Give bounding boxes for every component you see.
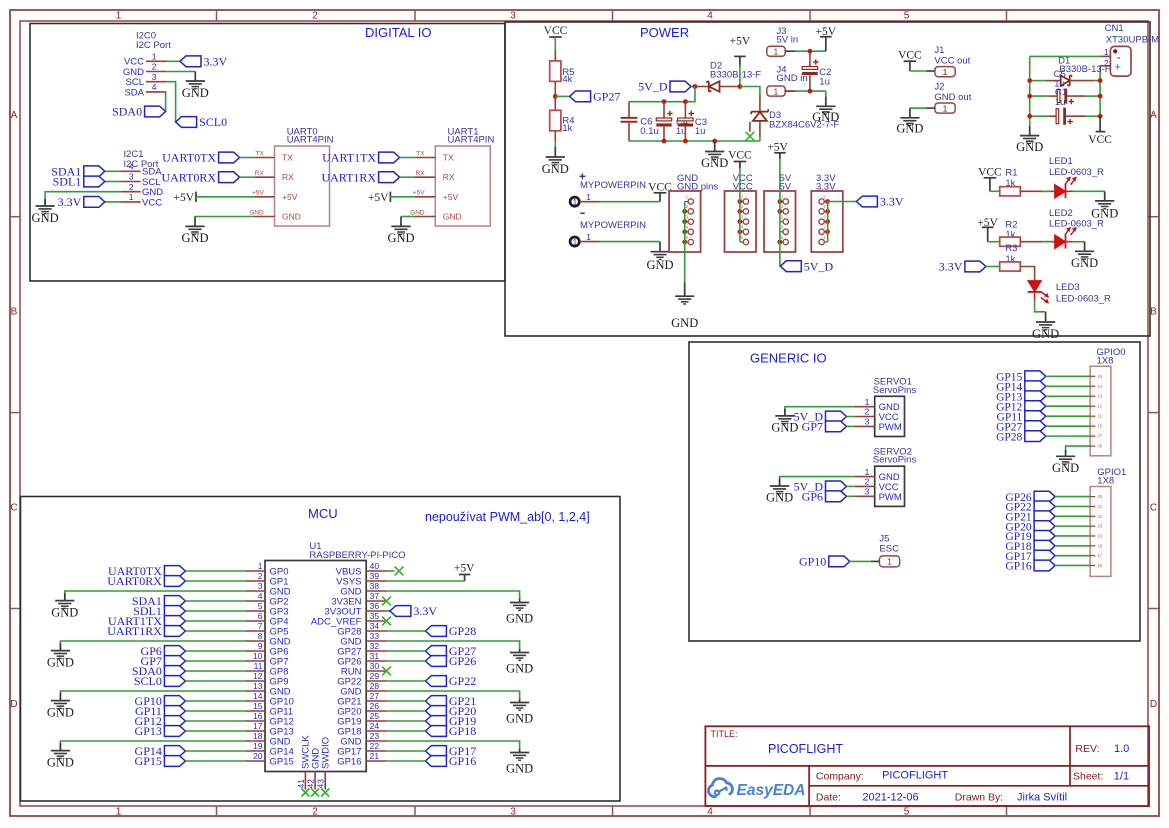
svg-text:1X8: 1X8 bbox=[1097, 476, 1114, 487]
SERVO1 pin 1 GND bbox=[854, 406, 874, 408]
net flag SCL0 bbox=[176, 117, 197, 128]
svg-text:VCC: VCC bbox=[728, 150, 752, 162]
GPIO0 pin 13 bbox=[1090, 395, 1095, 397]
no-connect X (RUN) bbox=[382, 667, 391, 676]
svg-text:22: 22 bbox=[1097, 504, 1102, 509]
svg-text:5: 5 bbox=[258, 601, 263, 611]
GPIO1 pin 17 bbox=[1090, 555, 1095, 557]
svg-text:GND in: GND in bbox=[777, 73, 808, 84]
EasyEDA logo bbox=[709, 779, 733, 797]
svg-text:ServoPins: ServoPins bbox=[873, 455, 917, 466]
svg-text:1: 1 bbox=[129, 192, 134, 202]
svg-text:ServoPins: ServoPins bbox=[873, 385, 917, 396]
wire U1 pin 8 GND bbox=[60, 641, 244, 650]
svg-text:42: 42 bbox=[306, 779, 316, 789]
U1 pin 31 GP26 bbox=[366, 660, 386, 662]
svg-text:GND: GND bbox=[410, 209, 425, 216]
wire CN1 left vertical bbox=[1029, 56, 1031, 126]
svg-text:1: 1 bbox=[943, 67, 948, 77]
svg-text:15: 15 bbox=[253, 701, 263, 711]
no-connect X (pin 43) bbox=[321, 789, 329, 797]
no-connect X (pin 42) bbox=[311, 789, 319, 797]
wire SERVO2 GND bbox=[780, 477, 855, 486]
junction CN1 rung3 right bbox=[1098, 114, 1103, 119]
wire GP22 to GPIO1 bbox=[1055, 505, 1090, 507]
svg-text:GP10: GP10 bbox=[799, 555, 826, 569]
svg-text:GND: GND bbox=[47, 656, 74, 670]
wire junction to GP27 bbox=[555, 95, 569, 97]
wire U1 pin 3 GND bbox=[65, 591, 245, 600]
svg-text:A: A bbox=[1150, 110, 1157, 121]
wire +5V stub to node bbox=[739, 56, 741, 66]
D3 NC pin bbox=[749, 122, 751, 132]
svg-text:GP15: GP15 bbox=[135, 754, 162, 768]
svg-text:RX: RX bbox=[416, 170, 426, 177]
svg-text:2: 2 bbox=[258, 571, 263, 581]
svg-text:LED2: LED2 bbox=[1049, 208, 1073, 219]
svg-text:31: 31 bbox=[370, 651, 380, 661]
net flag UART0RX (U1 left) bbox=[164, 576, 185, 587]
svg-text:SCL0: SCL0 bbox=[199, 115, 227, 129]
UART1 pin TX bbox=[415, 157, 435, 159]
net flag GP16 (U1 right) bbox=[425, 756, 446, 767]
net flag GP17 (GPIO1) bbox=[1034, 550, 1055, 561]
wire GP21 to U1 bbox=[387, 700, 426, 702]
svg-text:26: 26 bbox=[370, 701, 380, 711]
wire GP15 to GPIO0 bbox=[1046, 375, 1090, 377]
wire UART1 TX bbox=[400, 157, 415, 159]
svg-text:43: 43 bbox=[316, 779, 326, 789]
net flag GP27 (U1 right) bbox=[425, 646, 446, 657]
svg-text:4: 4 bbox=[707, 807, 713, 818]
svg-text:1: 1 bbox=[116, 11, 122, 22]
wire I2C1 GND bbox=[45, 192, 120, 206]
junction CN1 rung2 left bbox=[1027, 94, 1032, 99]
no-connect X (D3 NC) bbox=[746, 132, 755, 141]
svg-text:1.0: 1.0 bbox=[1114, 743, 1129, 755]
svg-text:1: 1 bbox=[943, 103, 948, 113]
svg-text:GP6: GP6 bbox=[802, 490, 823, 504]
svg-text:MYPOWERPIN: MYPOWERPIN bbox=[580, 220, 646, 231]
junction 5V_D/D2/top-rail bbox=[693, 84, 698, 89]
net flag GP21 (U1 right) bbox=[425, 696, 446, 707]
wire UART0TX to U1 bbox=[185, 570, 244, 572]
svg-text:SDA: SDA bbox=[124, 87, 144, 98]
wire R3 to LED3 bbox=[1020, 267, 1034, 281]
U1 pin 21 GP16 bbox=[366, 760, 386, 762]
wire GP6 to U1 bbox=[185, 650, 244, 652]
wire 3.3V header vertical bbox=[827, 202, 829, 243]
svg-text:11: 11 bbox=[1097, 414, 1102, 419]
ground (LED1) bbox=[1104, 191, 1106, 201]
junction GND rail bbox=[712, 139, 717, 144]
wire GP28 to U1 bbox=[387, 630, 426, 632]
ground (CN1 net) bbox=[1029, 126, 1031, 136]
net flag 3.3V (I2C0) bbox=[180, 56, 201, 67]
U1 pin 13 GND bbox=[245, 690, 265, 692]
svg-text:UART0RX: UART0RX bbox=[161, 170, 216, 184]
wire SCL0 to U1 bbox=[185, 680, 244, 682]
svg-text:POWER: POWER bbox=[640, 25, 689, 40]
U1 pin 17 GP13 bbox=[245, 730, 265, 732]
svg-text:GND: GND bbox=[47, 706, 74, 720]
svg-text:4k: 4k bbox=[562, 74, 572, 85]
U1 pin 41 SWCLK bbox=[304, 772, 306, 790]
svg-text:RX: RX bbox=[443, 172, 455, 182]
svg-text:GND: GND bbox=[812, 110, 839, 124]
U1 pin 40 VBUS bbox=[366, 570, 386, 572]
wire U1 pin 18 GND bbox=[60, 741, 244, 750]
svg-text:+5V: +5V bbox=[368, 192, 389, 204]
net flag GP6 (SERVO2) bbox=[826, 491, 847, 502]
svg-text:PWM: PWM bbox=[879, 492, 902, 503]
net flag SDA1 (U1 left) bbox=[164, 596, 185, 607]
svg-text:GND: GND bbox=[506, 612, 533, 626]
svg-text:GND: GND bbox=[1016, 140, 1043, 154]
svg-text:1X8: 1X8 bbox=[1097, 356, 1114, 367]
svg-text:14: 14 bbox=[1097, 384, 1102, 389]
U1 pin 19 GP14 bbox=[245, 750, 265, 752]
svg-text:2: 2 bbox=[312, 11, 318, 22]
SERVO2 pin 3 PWM bbox=[854, 495, 874, 497]
svg-text:2: 2 bbox=[865, 477, 870, 487]
wire UART1TX to U1 bbox=[185, 620, 244, 622]
svg-text:EasyEDA: EasyEDA bbox=[737, 782, 806, 799]
svg-text:1: 1 bbox=[258, 561, 263, 571]
ground (LED2) bbox=[1084, 242, 1086, 252]
svg-text:5V_D: 5V_D bbox=[638, 80, 668, 94]
svg-text:PICOFLIGHT: PICOFLIGHT bbox=[882, 770, 948, 782]
GPIO0 pin 06 bbox=[1090, 445, 1095, 447]
svg-text:SDA0: SDA0 bbox=[112, 105, 142, 119]
SERVO1 pin 2 VCC bbox=[854, 416, 874, 418]
svg-text:GND: GND bbox=[896, 122, 923, 136]
svg-text:36: 36 bbox=[370, 601, 380, 611]
junction D2/D3/+5V bbox=[738, 84, 743, 89]
wire GP13 to GPIO0 bbox=[1046, 395, 1090, 397]
connector MYPOWERPIN - bbox=[580, 212, 584, 214]
GPIO0 pin 14 bbox=[1090, 385, 1095, 387]
svg-text:24: 24 bbox=[370, 721, 380, 731]
GPIO0 pin 07 bbox=[1090, 435, 1095, 437]
wire R5 to R4 bbox=[554, 81, 556, 110]
ground (GND pins header) bbox=[684, 282, 686, 296]
svg-text:J1: J1 bbox=[934, 45, 944, 56]
svg-text:16: 16 bbox=[253, 711, 263, 721]
svg-text:12: 12 bbox=[1097, 404, 1102, 409]
net flag GP12 (GPIO0) bbox=[1025, 401, 1046, 412]
wire R2 to LED2 bbox=[1020, 241, 1054, 243]
net flag UART1RX bbox=[379, 172, 400, 183]
SERVO2 pin 1 GND bbox=[854, 476, 874, 478]
wire GP7 to U1 bbox=[185, 660, 244, 662]
wire LED3 to GND bbox=[1034, 293, 1036, 300]
net flag UART0TX bbox=[219, 152, 240, 163]
wire SDA1 to U1 bbox=[185, 600, 244, 602]
UART1 pin +5V bbox=[415, 196, 435, 198]
svg-text:B330B-13-F: B330B-13-F bbox=[710, 69, 761, 80]
svg-text:SDL1: SDL1 bbox=[53, 175, 82, 189]
wire J2 bbox=[926, 107, 935, 109]
U1 pin 23 GND bbox=[366, 740, 386, 742]
wire I2C0 VCC to 3.3V bbox=[166, 60, 180, 62]
svg-text:22: 22 bbox=[370, 741, 380, 751]
svg-text:1u: 1u bbox=[695, 126, 706, 137]
svg-text:8: 8 bbox=[258, 631, 263, 641]
GPIO0 pin 12 bbox=[1090, 405, 1095, 407]
svg-text:TX: TX bbox=[416, 150, 425, 157]
U1 pin 29 GP22 bbox=[366, 680, 386, 682]
CN1 pin 2 bbox=[1100, 65, 1110, 67]
net flag GP16 (GPIO1) bbox=[1034, 560, 1055, 571]
wire GP21 to GPIO1 bbox=[1055, 515, 1090, 517]
U1 pin 18 GND bbox=[245, 740, 265, 742]
svg-text:2: 2 bbox=[312, 807, 318, 818]
svg-text:GND: GND bbox=[1032, 327, 1059, 341]
svg-text:UART4PIN: UART4PIN bbox=[448, 135, 495, 146]
wire GP16 to GPIO1 bbox=[1055, 564, 1090, 566]
net flag GP19 (GPIO1) bbox=[1034, 531, 1055, 542]
U1 pin 43 SWDIO bbox=[324, 772, 326, 790]
svg-text:32: 32 bbox=[370, 641, 380, 651]
ground (MYPOWERPIN) bbox=[659, 242, 661, 252]
svg-text:nepoužívat PWM_ab[0, 1,2,4]: nepoužívat PWM_ab[0, 1,2,4] bbox=[425, 510, 590, 524]
wire U1 pin 23 GND bbox=[387, 741, 520, 749]
svg-text:Company:: Company: bbox=[816, 771, 864, 783]
wire UART1 RX bbox=[400, 176, 415, 178]
svg-text:1k: 1k bbox=[562, 123, 572, 134]
svg-text:A: A bbox=[11, 110, 18, 121]
wire GP11 to GPIO0 bbox=[1046, 415, 1090, 417]
wire I2C1 SCL to SDL1 bbox=[105, 181, 121, 183]
net flag GP27 bbox=[570, 91, 591, 102]
svg-text:GND: GND bbox=[506, 662, 533, 676]
svg-text:1: 1 bbox=[774, 86, 779, 96]
U1 pin 10 GP7 bbox=[245, 660, 265, 662]
svg-text:1: 1 bbox=[865, 467, 870, 477]
U1 pin 12 GP9 bbox=[245, 680, 265, 682]
svg-text:25: 25 bbox=[370, 711, 380, 721]
svg-text:5: 5 bbox=[904, 11, 910, 22]
svg-text:1: 1 bbox=[152, 52, 157, 62]
svg-text:TX: TX bbox=[282, 153, 293, 163]
U1 pin 30 RUN bbox=[366, 670, 386, 672]
net flag GP10 (U1 left) bbox=[164, 696, 185, 707]
svg-text:Date:: Date: bbox=[816, 792, 841, 804]
wire GP27 to U1 bbox=[387, 650, 426, 652]
wire VCC header bbox=[739, 162, 741, 169]
wire CN1 top rail bbox=[1030, 55, 1100, 57]
svg-text:UART1RX: UART1RX bbox=[321, 170, 376, 184]
svg-text:GND: GND bbox=[1071, 256, 1098, 270]
svg-text:3: 3 bbox=[152, 72, 157, 82]
wire UART1RX to U1 bbox=[185, 630, 244, 632]
svg-text:33: 33 bbox=[370, 631, 380, 641]
svg-text:38: 38 bbox=[370, 581, 380, 591]
net flag GP10 bbox=[829, 556, 850, 567]
wire GP19 to GPIO1 bbox=[1055, 535, 1090, 537]
svg-text:GP26: GP26 bbox=[449, 654, 476, 668]
svg-text:3.3V: 3.3V bbox=[58, 195, 82, 209]
U1 pin 11 GP8 bbox=[245, 670, 265, 672]
svg-text:VCC: VCC bbox=[142, 197, 162, 208]
svg-text:13: 13 bbox=[1097, 394, 1102, 399]
GPIO1 pin 21 bbox=[1090, 515, 1095, 517]
no-connect X (3V3EN) bbox=[382, 597, 391, 606]
net flag 3.3V (R3) bbox=[965, 261, 986, 272]
svg-text:LED1: LED1 bbox=[1049, 156, 1073, 167]
svg-text:1: 1 bbox=[774, 47, 779, 57]
svg-text:5V in: 5V in bbox=[777, 34, 799, 45]
svg-text:17: 17 bbox=[253, 721, 263, 731]
svg-text:20: 20 bbox=[253, 751, 263, 761]
GPIO1 pin 20 bbox=[1090, 525, 1095, 527]
CN1 pin 1 bbox=[1100, 55, 1110, 57]
junction J4/C2 bbox=[808, 89, 813, 94]
ground (UART0) bbox=[194, 217, 196, 227]
wire MYPOWERPIN+ to VCC bbox=[600, 201, 660, 203]
ground (GPIO0) bbox=[1065, 450, 1067, 456]
wire R4 to GND bbox=[554, 131, 556, 141]
svg-text:11: 11 bbox=[254, 661, 263, 671]
svg-text:+5V: +5V bbox=[173, 192, 194, 204]
resistor R4 1k bbox=[550, 110, 561, 131]
svg-text:GND: GND bbox=[506, 762, 533, 776]
svg-text:18: 18 bbox=[1097, 543, 1102, 548]
svg-text:4: 4 bbox=[152, 82, 157, 92]
svg-text:30: 30 bbox=[370, 661, 380, 671]
net flag SDA0 bbox=[145, 106, 166, 117]
section box POWER bbox=[505, 22, 1150, 336]
svg-text:GP28: GP28 bbox=[996, 431, 1022, 443]
U1 pin 28 GND bbox=[366, 690, 386, 692]
wire UART0 +5V bbox=[196, 196, 254, 198]
net flag GP26 (GPIO1) bbox=[1034, 491, 1055, 502]
svg-text:4: 4 bbox=[707, 11, 713, 22]
svg-text:GND: GND bbox=[51, 606, 78, 620]
svg-text:1u: 1u bbox=[819, 77, 830, 88]
svg-text:I2C Port: I2C Port bbox=[136, 40, 171, 51]
junction CN1 rung1 right bbox=[1098, 78, 1103, 83]
net flag GP6 (U1 left) bbox=[164, 646, 185, 657]
wire GP20 to U1 bbox=[387, 710, 426, 712]
net flag SCL0 (U1 left) bbox=[164, 676, 185, 687]
U1 pin 4 GP2 bbox=[245, 600, 265, 602]
net flag 3.3V (I2C1) bbox=[84, 197, 105, 208]
no-connect X (ADC_VREF) bbox=[382, 617, 391, 626]
svg-text:SWDIO: SWDIO bbox=[321, 737, 332, 769]
GPIO1 pin 22 bbox=[1090, 505, 1095, 507]
net flag SDA1 bbox=[84, 166, 105, 177]
svg-text:UART1TX: UART1TX bbox=[322, 151, 376, 165]
svg-text:40: 40 bbox=[370, 561, 380, 571]
net flag GP26 (U1 right) bbox=[425, 656, 446, 667]
U1 pin 22 GP17 bbox=[366, 750, 386, 752]
wire U1 pin 13 GND bbox=[60, 691, 244, 700]
wire LED1 to GND bbox=[1066, 190, 1073, 192]
svg-text:1/1: 1/1 bbox=[1114, 771, 1129, 783]
svg-text:VCC: VCC bbox=[978, 166, 1002, 178]
junction CN1 rung3 left bbox=[1027, 114, 1032, 119]
GPIO0 pin 10 bbox=[1090, 425, 1095, 427]
svg-text:VCC out: VCC out bbox=[934, 55, 970, 66]
svg-text:19: 19 bbox=[253, 741, 263, 751]
svg-text:C: C bbox=[10, 503, 17, 514]
wire GP18 to GPIO1 bbox=[1055, 545, 1090, 547]
svg-text:4: 4 bbox=[129, 162, 134, 172]
svg-text:GP22: GP22 bbox=[449, 674, 476, 688]
net flag GP12 (U1 left) bbox=[164, 716, 185, 727]
U1 pin 39 VSYS bbox=[366, 580, 386, 582]
svg-text:2021-12-06: 2021-12-06 bbox=[862, 792, 918, 804]
net flag GP11 (GPIO0) bbox=[1025, 411, 1046, 422]
svg-text:3: 3 bbox=[865, 487, 870, 497]
svg-text:10: 10 bbox=[1097, 424, 1102, 429]
svg-text:2: 2 bbox=[152, 62, 157, 72]
svg-text:B: B bbox=[1150, 307, 1157, 318]
svg-text:XT30UPB-M: XT30UPB-M bbox=[1106, 35, 1159, 46]
svg-text:3: 3 bbox=[510, 11, 516, 22]
wire UART0 GND bbox=[195, 216, 254, 218]
svg-text:+5V: +5V bbox=[443, 192, 459, 202]
svg-text:RASPBERRY-PI-PICO: RASPBERRY-PI-PICO bbox=[309, 550, 405, 561]
svg-text:3.3V: 3.3V bbox=[413, 604, 437, 618]
svg-text:Jirka Svítil: Jirka Svítil bbox=[1017, 792, 1067, 804]
svg-text:GND: GND bbox=[542, 162, 569, 176]
SERVO1 pin 3 PWM bbox=[854, 425, 874, 427]
wire I2C1 SDA to SDA1 bbox=[105, 170, 121, 172]
svg-text:3: 3 bbox=[258, 581, 263, 591]
net flag UART1TX (U1 left) bbox=[164, 616, 185, 627]
svg-text:GND: GND bbox=[443, 212, 462, 222]
svg-text:9: 9 bbox=[258, 641, 263, 651]
U1 pin 34 GP28 bbox=[366, 630, 386, 632]
wire GP13 to U1 bbox=[185, 730, 244, 732]
net flag UART1TX bbox=[379, 152, 400, 163]
capacitor C5 (third rung) bbox=[1030, 115, 1049, 117]
wire GP15 to U1 bbox=[185, 760, 244, 762]
U1 pin 27 GP21 bbox=[366, 700, 386, 702]
net flag GP7 (U1 left) bbox=[164, 656, 185, 667]
U1 pin 35 ADC_VREF bbox=[366, 620, 386, 622]
wire GP22 to U1 bbox=[387, 680, 426, 682]
ground (U1 pin 3) bbox=[64, 593, 66, 601]
wire R1 to LED1 bbox=[1020, 190, 1054, 192]
svg-text:39: 39 bbox=[370, 571, 380, 581]
GPIO0 pin 11 bbox=[1090, 415, 1095, 417]
svg-text:15: 15 bbox=[1097, 374, 1102, 379]
wire GPIO0 pin8 to ground bbox=[1066, 446, 1091, 452]
svg-text:1: 1 bbox=[887, 557, 892, 567]
wire GP12 to U1 bbox=[185, 720, 244, 722]
net flag 5V_D (filter) bbox=[670, 81, 691, 92]
net flag GP17 (U1 right) bbox=[425, 746, 446, 757]
net flag UART0RX bbox=[219, 172, 240, 183]
wire GP17 to U1 bbox=[387, 750, 426, 752]
wire J4 to GND bbox=[795, 90, 825, 92]
svg-text:GND: GND bbox=[506, 712, 533, 726]
wire GP18 to U1 bbox=[387, 730, 426, 732]
SERVO2 pin 2 VCC bbox=[854, 485, 874, 487]
net flag GP21 (GPIO1) bbox=[1034, 511, 1055, 522]
svg-text:UART1RX: UART1RX bbox=[107, 624, 162, 638]
ground (U1 pin 33) bbox=[519, 649, 521, 653]
svg-text:2: 2 bbox=[129, 182, 134, 192]
junction CN1 rung2 right bbox=[1098, 94, 1103, 99]
U1 pin 42 GND bbox=[314, 772, 316, 790]
svg-text:GND: GND bbox=[671, 316, 698, 330]
wire GP27 to GPIO0 bbox=[1046, 425, 1090, 427]
